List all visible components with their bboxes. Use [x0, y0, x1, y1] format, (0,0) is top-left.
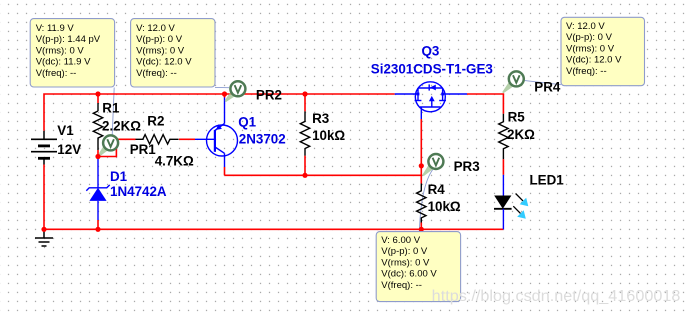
svg-text:4.7KΩ: 4.7KΩ: [155, 153, 194, 168]
LED1 emission arrow 2: [513, 206, 526, 219]
svg-text:V: 11.9 V: V: 11.9 V: [36, 23, 75, 34]
svg-text:V1: V1: [57, 123, 74, 138]
svg-text:V(dc): 12.0 V: V(dc): 12.0 V: [566, 55, 622, 66]
svg-text:PR1: PR1: [130, 142, 157, 157]
junction: rail / R3: [302, 91, 307, 96]
junction: V1 at ground bus: [41, 227, 46, 232]
svg-text:PR3: PR3: [454, 159, 480, 174]
junction: probe point PR3: [419, 163, 424, 168]
probe box 1 (PR1 readings): [30, 19, 114, 87]
wire: Q1 collector to mid net: [224, 167, 226, 175]
svg-text:1N4742A: 1N4742A: [110, 184, 167, 199]
wire: R2 right to Q1 base: [179, 138, 195, 140]
svg-text:R1: R1: [102, 100, 120, 115]
probe box 4 (PR3 readings): [376, 232, 460, 302]
probe PR1: [103, 135, 118, 150]
wire: R4 bottom to ground bus: [420, 223, 422, 230]
wire: R3 bottom to mid net: [304, 156, 306, 176]
svg-text:Q3: Q3: [422, 43, 440, 58]
resistor R3: [300, 111, 309, 155]
svg-text:V(p-p): 0 V: V(p-p): 0 V: [381, 246, 428, 257]
svg-text:V: 12.0 V: V: 12.0 V: [136, 23, 175, 34]
svg-text:PR2: PR2: [256, 87, 282, 102]
junction: rail / R1: [95, 91, 100, 96]
svg-text:V: 12.0 V: V: 12.0 V: [566, 21, 605, 32]
wire: Q1 emitter to rail: [224, 94, 226, 98]
probe PR3: [428, 154, 443, 169]
svg-text:R4: R4: [428, 182, 446, 197]
wire: R5 bottom to LED1 anode: [502, 159, 504, 175]
resistor R5: [499, 114, 508, 159]
resistor R4: [417, 184, 426, 223]
wire: mid net Q1 collector to R4 top: [225, 174, 422, 176]
svg-text:12V: 12V: [57, 142, 81, 157]
svg-text:V(freq): --: V(freq): --: [136, 68, 177, 79]
probe box 2 (PR2 readings): [131, 19, 215, 87]
svg-text:V(rms): 0 V: V(rms): 0 V: [136, 45, 185, 56]
battery V1: [31, 131, 57, 165]
svg-text:V(p-p): 1.44 pV: V(p-p): 1.44 pV: [36, 34, 101, 45]
resistor R2: [136, 135, 179, 144]
svg-text:V(dc): 6.00 V: V(dc): 6.00 V: [381, 269, 437, 280]
wire: R1 bottom to node PR1: [97, 150, 99, 157]
wire: Q3 gate down to R4: [420, 119, 422, 184]
junction: R4 at ground bus: [419, 227, 424, 232]
svg-text:V(rms): 0 V: V(rms): 0 V: [566, 43, 615, 54]
svg-text:R2: R2: [147, 113, 164, 128]
svg-text:V(dc): 12.0 V: V(dc): 12.0 V: [136, 57, 192, 68]
probe tail PR2: [225, 92, 235, 102]
svg-text:2.2KΩ: 2.2KΩ: [102, 119, 141, 134]
svg-text:D1: D1: [110, 169, 128, 184]
wire: rail to R1 top: [97, 94, 99, 103]
svg-text:PR4: PR4: [534, 79, 561, 94]
leader line from probe box 1 to PR1: [112, 88, 114, 141]
svg-text:10kΩ: 10kΩ: [312, 128, 345, 143]
junction: rail / Q1 emitter: [222, 91, 227, 96]
svg-text:Si2301CDS-T1-GE3: Si2301CDS-T1-GE3: [371, 61, 493, 76]
svg-text:R5: R5: [508, 110, 526, 125]
svg-text:V(p-p): 0 V: V(p-p): 0 V: [566, 32, 613, 43]
svg-text:V(freq): --: V(freq): --: [566, 66, 607, 77]
probe tail PR4: [502, 83, 513, 94]
svg-text:V: 6.00 V: V: 6.00 V: [381, 235, 420, 246]
wire: node PR1 to R2 left: [98, 139, 136, 156]
leader line from probe box 2 to PR2: [215, 86, 229, 88]
probe PR2: [230, 81, 245, 96]
svg-text:2KΩ: 2KΩ: [507, 127, 535, 142]
LED1: [494, 175, 512, 230]
svg-text:V(rms): 0 V: V(rms): 0 V: [381, 257, 430, 268]
svg-text:V(p-p): 0 V: V(p-p): 0 V: [136, 34, 183, 45]
zener diode D1: [86, 157, 109, 221]
svg-text:V(rms): 0 V: V(rms): 0 V: [36, 45, 85, 56]
svg-text:2N3702: 2N3702: [239, 132, 286, 147]
wire: ground bus: [44, 228, 503, 230]
wire: D1 anode to ground bus: [97, 220, 99, 229]
wire: rail to R3 top: [304, 94, 306, 111]
ground: [35, 229, 53, 246]
junction: mid net / R3 bottom: [302, 173, 307, 178]
svg-text:V(freq): --: V(freq): --: [381, 280, 422, 291]
wire: Q3 source to PR4 corner and R5: [467, 94, 503, 114]
LED1 emission arrow 1: [516, 194, 529, 207]
leader line from probe box 3 to PR4: [525, 81, 561, 85]
probe tail PR1: [97, 147, 107, 157]
svg-text:R3: R3: [312, 111, 329, 126]
resistor R1: [93, 103, 102, 150]
svg-text:Q1: Q1: [238, 114, 256, 129]
svg-text:V(dc): 11.9 V: V(dc): 11.9 V: [36, 57, 91, 68]
svg-text:LED1: LED1: [530, 172, 565, 187]
probe tail PR3: [422, 165, 432, 176]
wire: V1 negative to ground bus: [43, 165, 45, 230]
wire: +12V rail from V1 to Q3 drain: [44, 94, 395, 131]
MOSFET Q3 (Si2301CDS-T1-GE3): [395, 82, 467, 119]
svg-text:V(freq): --: V(freq): --: [36, 68, 77, 79]
junction: node PR1 (R1/D1/R2): [95, 154, 100, 159]
svg-text:https://blog.csdn.net/qq_41600: https://blog.csdn.net/qq_41600018: [432, 288, 681, 305]
svg-text:10kΩ: 10kΩ: [428, 199, 461, 214]
junction: D1 anode at ground bus: [95, 227, 100, 232]
probe box 3 (PR4 readings): [561, 17, 645, 85]
transistor Q1 (PNP 2N3702): [195, 98, 238, 168]
leader line from probe box 4 to PR3: [419, 170, 432, 232]
probe PR4: [509, 71, 524, 86]
